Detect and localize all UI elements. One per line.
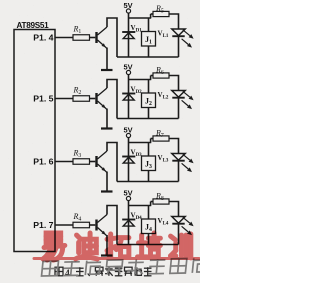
resistor R1 [73, 35, 90, 41]
resistor R7 [151, 138, 153, 140]
wire top rail (stage 1) [129, 17, 152, 19]
wire R2 to Q2 base [90, 98, 96, 100]
node 5V supply (stage 4) [123, 189, 132, 206]
resistor R2 [73, 96, 90, 102]
wire P1.7 to R4 [55, 224, 73, 226]
resistor R4 [73, 222, 90, 228]
wire top rail (stage 2) [129, 79, 152, 81]
node 5V supply (stage 1) [123, 1, 132, 18]
resistor R6 [151, 75, 153, 77]
wire R3 to Q3 base [90, 161, 96, 163]
wire bottom rail (stage 2) [117, 118, 179, 120]
LED VL4 [158, 217, 194, 236]
wire top rail (stage 4) [129, 205, 152, 207]
wire Q3 emitter down [106, 172, 108, 192]
diode VD4 (flyback) [122, 206, 142, 245]
wire LED to bottom rail [178, 98, 180, 119]
LED VL2 [158, 91, 194, 110]
wire Q1 collector to bottom rail [107, 18, 117, 57]
relay coil J1 [142, 18, 156, 57]
transistor Q4 [95, 215, 107, 237]
diode VD2 (flyback) [122, 80, 142, 119]
wire LED to bottom rail [178, 36, 180, 57]
transistor Q3 [95, 151, 107, 173]
wire bottom rail (stage 4) [117, 244, 179, 246]
wire Q1 emitter down [106, 48, 108, 71]
wire LED to bottom rail [178, 224, 180, 245]
watermark red text 易迪拓培训 [34, 233, 199, 260]
wire P1.4 to R1 [55, 37, 73, 39]
node 5V supply (stage 2) [123, 63, 132, 80]
diode VD3 (flyback) [122, 143, 142, 182]
relay coil J4 [142, 206, 156, 245]
wire P1.6 to R3 [55, 161, 73, 163]
wire Q3 collector to bottom rail [107, 143, 117, 182]
wire bottom rail (stage 1) [117, 56, 179, 58]
LED VL3 [158, 154, 194, 173]
ground (stage 1) [101, 69, 113, 71]
ground (stage 3) [101, 190, 113, 192]
transistor Q2 [95, 88, 107, 110]
wire Q4 emitter down [106, 235, 108, 256]
IC U1 AT89S51 box [14, 30, 55, 252]
wire Q2 collector to bottom rail [107, 80, 117, 119]
watermark gray text 射频和天线设计培训课程专家 [42, 258, 209, 276]
wire R5 to LED [169, 14, 179, 29]
caption 图4 温、湿度控制电路 [55, 267, 152, 279]
wire R8 to LED [169, 202, 179, 217]
wire Q2 emitter down [106, 109, 108, 129]
diode VD1 (flyback) [122, 18, 142, 57]
relay coil J2 [142, 80, 156, 119]
wire LED to bottom rail [178, 161, 180, 182]
LED VL1 [158, 29, 194, 48]
wire bottom rail (stage 3) [117, 181, 179, 183]
wire R6 to LED [169, 76, 179, 91]
wire top rail (stage 3) [129, 142, 152, 144]
wire P1.5 to R2 [55, 98, 73, 100]
wire Q4 collector to bottom rail [107, 206, 117, 245]
wire R4 to Q4 base [90, 224, 96, 226]
resistor R8 [151, 201, 153, 203]
wire R7 to LED [169, 139, 179, 154]
ground (stage 4) [101, 254, 113, 256]
ground (stage 2) [101, 127, 113, 129]
resistor R5 [151, 13, 153, 15]
transistor Q1 [95, 27, 107, 49]
relay coil J3 [142, 143, 156, 182]
wire R1 to Q1 base [90, 37, 96, 39]
resistor R3 [73, 159, 90, 165]
node 5V supply (stage 3) [123, 126, 132, 143]
